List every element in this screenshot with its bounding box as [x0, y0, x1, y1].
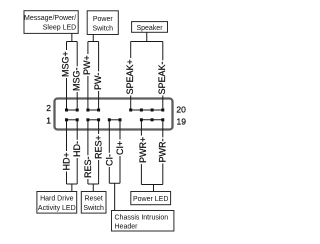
label CI+: [115, 140, 125, 157]
svg-text:PW-: PW-: [93, 73, 103, 90]
label HD-: [72, 140, 82, 158]
svg-text:Header: Header: [115, 224, 139, 231]
label PW-: [93, 71, 103, 91]
wire HD merge: [67, 184, 78, 192]
bracket pins 1-3 HD pair: [67, 119, 78, 121]
bracket pins 6-8 PW pair: [88, 109, 99, 111]
box Hard Drive Activity LED: [37, 192, 77, 214]
label RES+: [94, 134, 104, 160]
box Speaker: [132, 22, 168, 33]
svg-text:Power LED: Power LED: [133, 196, 168, 203]
wire HD+ from pin 1: [66, 120, 68, 184]
wire PWR merge: [141, 185, 162, 192]
wire PWR+ from pin 15: [140, 120, 142, 185]
label HD+: [62, 151, 72, 172]
svg-text:2: 2: [46, 103, 51, 113]
wire PW+ to pin 6: [87, 42, 89, 111]
svg-text:Power: Power: [93, 16, 114, 23]
svg-text:PW+: PW+: [82, 55, 92, 75]
box Chassis Intrusion Header: [112, 211, 174, 232]
svg-text:RES+: RES+: [94, 135, 104, 159]
label MSG+: [61, 50, 71, 78]
svg-text:SPEAK+: SPEAK+: [125, 59, 135, 94]
wire Speaker split: [131, 32, 163, 42]
svg-text:HD+: HD+: [62, 152, 72, 170]
box Reset Switch: [81, 192, 106, 214]
svg-text:SPEAK-: SPEAK-: [157, 61, 167, 94]
svg-text:20: 20: [176, 105, 186, 115]
bracket speaker pins: [131, 109, 163, 111]
bracket pins 9-11 CI pair: [109, 119, 120, 121]
svg-text:Sleep LED: Sleep LED: [43, 25, 76, 32]
svg-text:Speaker: Speaker: [136, 25, 163, 32]
svg-text:PWR-: PWR-: [157, 139, 167, 163]
svg-text:RES-: RES-: [83, 156, 93, 178]
label SPEAK+: [125, 58, 135, 96]
svg-text:CI-: CI-: [104, 154, 114, 166]
svg-text:MSG+: MSG+: [61, 51, 71, 77]
wire CI merge: [109, 183, 120, 210]
label PWR-: [157, 137, 167, 163]
wire CI+ from pin 11: [119, 120, 121, 184]
label SPEAK-: [157, 60, 167, 95]
label CI-: [104, 153, 114, 167]
svg-text:Chassis Intrusion: Chassis Intrusion: [115, 215, 169, 222]
bracket pins 5-7 RES pair: [88, 119, 99, 121]
wire HD- from pin 3: [76, 120, 78, 184]
wire MSG- to pin 4: [76, 42, 78, 111]
wire RES merge: [88, 184, 99, 192]
label PWR+: [138, 136, 148, 165]
box Power Switch: [87, 11, 118, 35]
svg-text:PWR+: PWR+: [138, 137, 148, 163]
wire SPEAK- to pin 20: [162, 42, 164, 111]
svg-text:Activity LED: Activity LED: [38, 205, 76, 212]
wire SPEAK+ to pin 14: [130, 42, 132, 111]
svg-text:Hard Drive: Hard Drive: [40, 196, 74, 203]
wire Message LED split: [67, 33, 78, 42]
wire CI- from pin 9: [108, 120, 110, 184]
svg-text:MSG-: MSG-: [71, 67, 81, 91]
svg-text:Message/Power/: Message/Power/: [24, 15, 76, 22]
label RES-: [83, 155, 93, 179]
svg-text:Reset: Reset: [85, 196, 103, 203]
svg-text:19: 19: [177, 117, 187, 127]
box Message/Power/Sleep LED: [24, 11, 78, 34]
wire RES+ from pin 7: [98, 120, 100, 184]
svg-text:HD-: HD-: [72, 141, 82, 157]
bracket PWR pins: [141, 119, 162, 121]
svg-text:CI+: CI+: [115, 141, 125, 155]
wire PW- to pin 8: [98, 42, 100, 111]
wire Power Switch split: [88, 35, 99, 43]
box Power LED: [131, 192, 171, 205]
svg-text:1: 1: [46, 116, 51, 126]
label MSG-: [71, 66, 81, 92]
bracket pins 2-4 MSG pair: [67, 109, 78, 111]
wire RES- from pin 5: [87, 120, 89, 184]
label PW+: [82, 54, 92, 76]
wire PWR- from pin 19: [162, 120, 164, 185]
wire MSG+ to pin 2: [66, 42, 68, 111]
connector header outline: [55, 99, 173, 130]
svg-text:Switch: Switch: [83, 205, 104, 212]
svg-text:Switch: Switch: [92, 26, 113, 33]
